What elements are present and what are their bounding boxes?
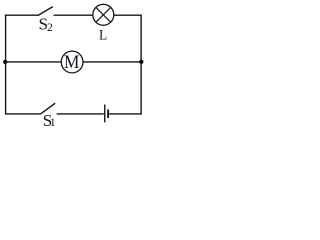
node junction left <box>3 60 7 64</box>
switch S2 blade <box>38 7 53 16</box>
battery short plate <box>107 109 109 118</box>
wire battery to bottom-right corner <box>108 113 142 115</box>
wire right vertical <box>140 15 142 115</box>
node junction right <box>139 60 143 64</box>
wire left vertical <box>5 15 7 115</box>
wire switch S2 to lamp <box>54 14 93 16</box>
lamp L cross <box>96 7 111 22</box>
wire top-left to switch S2 <box>5 14 38 16</box>
lamp L circle <box>93 4 114 25</box>
wire switch S1 to battery <box>57 113 104 115</box>
svg-text:1: 1 <box>50 115 56 129</box>
wire bottom-left to switch S1 <box>5 113 41 115</box>
svg-text:2: 2 <box>47 20 53 34</box>
battery long plate <box>104 105 106 123</box>
motor M circle <box>61 51 83 73</box>
wire lamp to top-right corner <box>113 14 141 16</box>
svg-text:M: M <box>64 52 79 73</box>
wire middle branch <box>6 61 142 63</box>
switch S1 blade <box>40 103 55 114</box>
svg-text:L: L <box>99 28 107 44</box>
